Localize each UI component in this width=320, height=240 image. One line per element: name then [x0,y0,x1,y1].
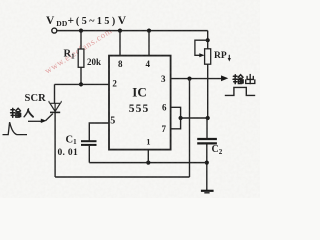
wire C1 bottom [88,146,90,163]
node R1 top [79,29,83,33]
node pin3/output [187,77,191,81]
wire output net down [189,79,191,177]
node C2/ground rail [205,161,209,165]
node RP1 wiper [206,38,210,42]
top rail [57,30,208,32]
wire SCR cathode [54,112,56,177]
wire pin4 [148,31,150,56]
wire R1 top [80,31,82,49]
wire R1 bottom [80,67,82,84]
wire C2 bottom [206,145,208,191]
wire RP1 bottom [207,64,209,118]
output label (shu chu) [233,75,243,84]
node pin1/ground [146,161,150,165]
paper noise overlay [0,0,260,198]
wire output bottom rail [55,176,189,178]
node R1/pin2 [79,82,83,86]
capacitor C1 [81,140,97,142]
resistor R1 [78,49,84,67]
wire C2 top [206,118,208,138]
wire rail corner to RP1 [207,31,209,49]
wire 6-7 to RP1/C2 [181,117,208,119]
wire SCR anode [54,84,56,103]
wire ground rail [89,162,207,164]
node pin8 rail [118,29,122,33]
node 6-7 [179,116,183,120]
wire pin1 [147,150,149,163]
capacitor C2 [197,138,217,140]
wire pin8 [119,31,121,56]
thyristor SCR [49,101,61,112]
VDD terminal [52,28,57,33]
wire pin2 [55,83,109,85]
node RP1/C2 [206,116,210,120]
IC 555 box U1 [109,56,171,150]
wire 6-7 bracket [171,107,181,129]
wire pin5 to C1 [89,123,109,140]
output square waveform [225,87,255,95]
input pulse waveform [3,122,28,134]
potentiometer RP1 body [205,49,211,64]
wire SCR gate [46,114,53,121]
wire pin3 output [171,78,222,80]
input label (shu ru) [11,108,21,117]
input arrow [28,120,42,122]
RP1 wiper link [195,40,208,55]
ground [201,190,214,192]
RP1 sub arrow [228,55,230,60]
node pin4 rail [147,29,151,33]
output arrowhead [221,75,228,81]
